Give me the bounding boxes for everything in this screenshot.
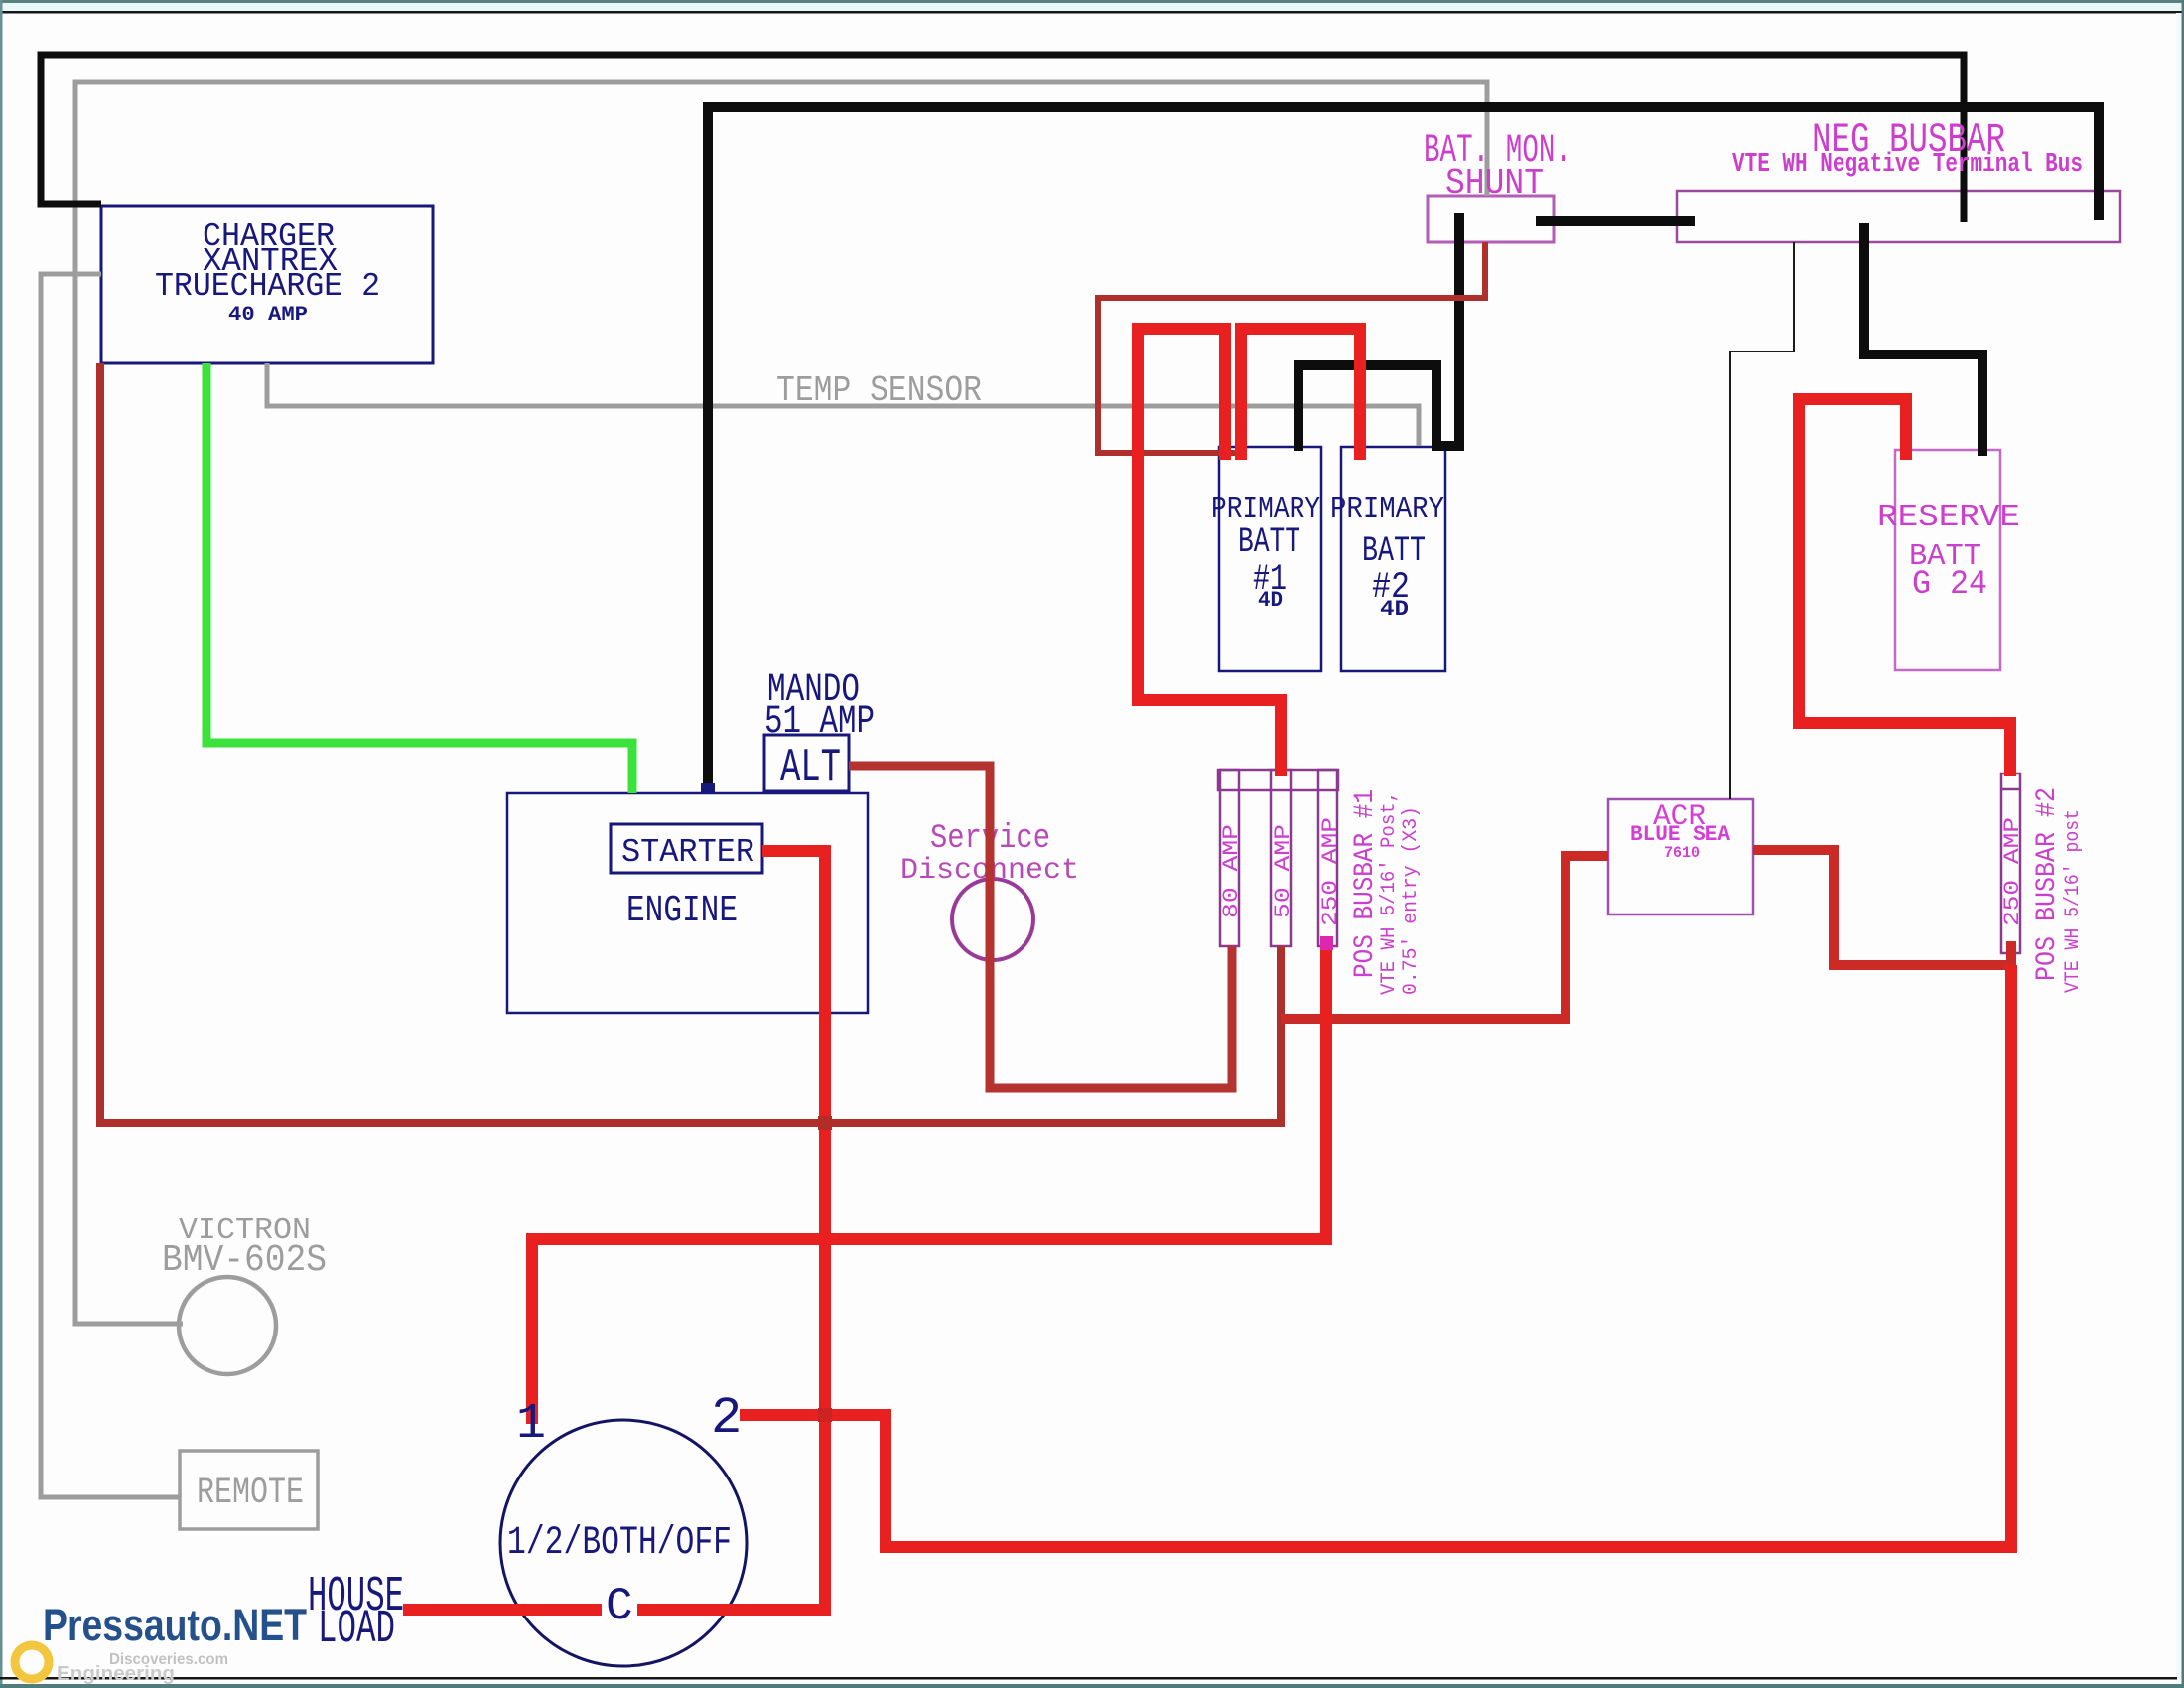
battery box PRIMARY BATT #2 [1341, 447, 1445, 671]
node junction charger wire crosses starter wire [818, 1116, 832, 1130]
alternator box ALT [764, 735, 849, 791]
node engine top junction [701, 783, 715, 794]
reserve battery box RESERVE BATT G 24 [1895, 450, 2000, 670]
svg-text:RESERVE: RESERVE [1877, 500, 2020, 535]
svg-text:VTE WH Negative Terminal Bus: VTE WH Negative Terminal Bus [1732, 150, 2083, 180]
svg-text:POS BUSBAR #2: POS BUSBAR #2 [2032, 787, 2063, 981]
watermark discoveries logo [15, 1645, 49, 1679]
wire red switch terminal 2 to pos busbar #2 [740, 965, 2011, 1547]
svg-text:4D: 4D [1380, 597, 1409, 622]
svg-text:50 AMP: 50 AMP [1271, 824, 1296, 918]
svg-text:2: 2 [711, 1389, 742, 1448]
wire red 50 AMP fuse junction to ACR left terminal [1281, 856, 1608, 1019]
wire red starter to switch common C and house load [403, 851, 825, 1610]
svg-text:Pressauto.NET: Pressauto.NET [43, 1600, 307, 1650]
engine box [507, 793, 868, 1013]
neg busbar box [1677, 191, 2120, 242]
wire black engine negative: engine to rail to neg busbar [708, 107, 2099, 793]
wire gray temp sensor: charger to battery #2 [267, 363, 1419, 446]
svg-text:REMOTE: REMOTE [197, 1473, 304, 1514]
svg-text:BATT: BATT [1362, 531, 1426, 571]
battery box PRIMARY BATT #1 [1219, 447, 1321, 671]
left teal edge [0, 0, 3, 1688]
wire dark red shunt positive sense to battery #1 positive [1098, 242, 1485, 453]
svg-text:51 AMP: 51 AMP [764, 700, 875, 745]
wire black battery #1 neg to battery #2 neg jumper [1298, 365, 1436, 451]
fuse 50 AMP busbar #1 [1271, 770, 1291, 946]
wire red alternator ALT through service disconnect to 80 AMP fuse [849, 766, 1232, 1088]
svg-text:ALT: ALT [780, 742, 841, 795]
wire dark red charger positive to 50 AMP fuse [100, 363, 1281, 1123]
wire red battery #1 positive to pos busbar #1 feed [1138, 329, 1281, 776]
svg-text:7610: 7610 [1664, 844, 1700, 862]
wire red reserve battery positive loop to pos busbar #2 fuse top [1799, 399, 2010, 776]
pos busbar #1 top bar [1218, 770, 1338, 790]
svg-text:PRIMARY: PRIMARY [1330, 492, 1444, 527]
svg-text:POS BUSBAR #1: POS BUSBAR #1 [1350, 789, 1381, 978]
wire red switch terminal 1 to 250 AMP fuse busbar #1 [532, 943, 1326, 1424]
node junction terminal 2 wire crosses starter wire [818, 1408, 832, 1422]
wire black neg busbar to reserve battery negative [1864, 223, 1982, 456]
svg-text:1: 1 [516, 1396, 546, 1453]
svg-text:LOAD: LOAD [318, 1604, 395, 1656]
fuse 80 AMP busbar #1 [1220, 770, 1239, 946]
shunt box BAT. MON. SHUNT [1428, 196, 1554, 242]
svg-text:4D: 4D [1258, 588, 1283, 613]
svg-text:TEMP SENSOR: TEMP SENSOR [776, 370, 982, 411]
wire red pos busbar #2 fuse bottom cap [2006, 941, 2016, 971]
svg-text:SHUNT: SHUNT [1445, 163, 1544, 204]
wire black charger negative: charger to top rail to neg busbar [41, 55, 1964, 222]
svg-text:ENGINE: ENGINE [626, 890, 738, 932]
wire gray remote: charger to remote box [41, 274, 180, 1497]
wire thin black neg busbar to ACR ground [1730, 242, 1794, 799]
starter box [611, 824, 762, 873]
ACR box BLUE SEA 7610 [1608, 799, 1753, 914]
svg-text:BMV-602S: BMV-602S [162, 1239, 327, 1282]
bottom thin black rule [0, 1677, 2177, 1680]
wire red ACR right terminal to pos busbar #2 [1753, 850, 2011, 965]
wire gray shunt sense: shunt to top rail to victron [75, 82, 1487, 1324]
svg-text:VTE WH 5/16' post: VTE WH 5/16' post [2062, 809, 2085, 993]
remote box [180, 1451, 318, 1529]
battery switch circle 1/2/BOTH/OFF [500, 1420, 747, 1666]
svg-text:1/2/BOTH/OFF: 1/2/BOTH/OFF [507, 1521, 732, 1566]
svg-text:TRUECHARGE 2: TRUECHARGE 2 [155, 268, 380, 305]
wire red battery #1 to battery #2 positive jumper [1241, 329, 1360, 460]
right teal edge [2182, 0, 2184, 1688]
node fuse 250 AMP top terminal blob [1320, 936, 1333, 950]
service disconnect circle [952, 879, 1033, 960]
svg-text:C: C [606, 1581, 633, 1632]
svg-text:BATT: BATT [1238, 522, 1300, 562]
wire black shunt to battery #2 negative [1441, 213, 1459, 446]
svg-text:G 24: G 24 [1912, 566, 1987, 604]
svg-text:80 AMP: 80 AMP [1219, 824, 1244, 918]
top thin black rule [0, 11, 2184, 14]
svg-text:0.75' entry (X3): 0.75' entry (X3) [1400, 806, 1423, 995]
fuse 250 AMP pos busbar #2 [2001, 774, 2020, 953]
top teal border strip [0, 0, 2184, 3]
node terminal C label [602, 1587, 637, 1622]
svg-text:VTE WH 5/16' Post,: VTE WH 5/16' Post, [1378, 791, 1401, 995]
bottom teal border strip [0, 1684, 2184, 1688]
charger box CHARGER XANTREX TRUECHARGE 2 [101, 206, 433, 363]
wire green charger to engine block [206, 363, 632, 793]
wire black shunt to neg busbar [1536, 216, 1695, 226]
svg-text:STARTER: STARTER [621, 834, 754, 871]
right edge light strip [2176, 13, 2182, 1688]
svg-text:40 AMP: 40 AMP [228, 304, 308, 327]
svg-text:250 AMP: 250 AMP [2000, 817, 2025, 926]
svg-text:Engineering: Engineering [57, 1663, 175, 1685]
svg-text:250 AMP: 250 AMP [1318, 817, 1343, 926]
fuse 250 AMP busbar #1 [1318, 770, 1337, 946]
victron monitor circle [179, 1277, 276, 1374]
